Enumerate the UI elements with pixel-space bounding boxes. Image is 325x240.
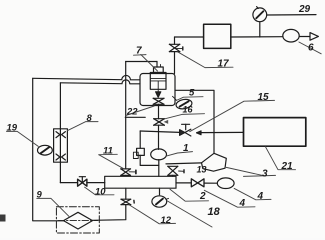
valve 10 (bowtie with T stem) — [78, 177, 87, 187]
wire: cap top to upper-left corner run — [156, 62, 158, 68]
leader 9 — [37, 198, 69, 216]
valve 17 (hourglass on vertical) — [169, 37, 182, 74]
leader 10 — [85, 187, 114, 195]
wire: unit7 right port to hexagon 3 — [175, 90, 214, 153]
leader 1 — [166, 152, 193, 157]
box 20 (square unit on top line) — [204, 24, 231, 48]
leader 7 — [134, 54, 147, 57]
wire: valve 10 to manifold — [87, 182, 105, 184]
leader 19 — [7, 131, 39, 146]
svg-text:21: 21 — [281, 161, 294, 172]
svg-text:4: 4 — [257, 191, 264, 202]
unit 8 (box with two check symbols) — [54, 129, 68, 162]
wire: stub under label 22 — [125, 116, 145, 118]
box 21 — [244, 118, 306, 147]
svg-text:9: 9 — [37, 190, 43, 201]
svg-text:6: 6 — [308, 42, 314, 53]
wire: main top line valve17 to box20 — [175, 36, 204, 38]
scan blob at left edge — [0, 215, 6, 222]
wire: line to valve 15 and box 21 — [140, 131, 179, 132]
leader 11 — [99, 153, 118, 155]
svg-text:10: 10 — [95, 186, 106, 197]
leader 15 — [190, 100, 275, 131]
svg-text:22: 22 — [126, 107, 138, 118]
wire: valve 12 down and left to filter 9 — [93, 205, 126, 221]
svg-text:8: 8 — [87, 113, 93, 124]
leader 8 — [68, 122, 99, 131]
wire: vertical feed to valve 11 — [125, 62, 127, 169]
cylinder inside unit 7 — [150, 64, 166, 97]
wire: left vertical down to filter 9 — [33, 78, 64, 221]
valve 22 (hourglass below cylinder) — [153, 98, 164, 104]
valve 16 (hourglass on pump riser) — [154, 104, 169, 125]
leader 2 — [170, 189, 209, 201]
wire: horizontal line B with hop — [60, 80, 140, 84]
wire: pump 1 to manifold — [158, 160, 160, 177]
leader 14 — [204, 190, 255, 207]
gauge 29 stem wire — [259, 22, 261, 37]
svg-text:17: 17 — [218, 59, 230, 70]
pump 1 (ellipse) — [151, 149, 167, 160]
svg-text:11: 11 — [103, 145, 113, 156]
svg-text:15: 15 — [258, 92, 270, 103]
valve 15 (throttle with arrow) — [180, 124, 201, 136]
circle 4 — [217, 178, 234, 189]
svg-text:7: 7 — [136, 46, 142, 57]
valve 12 (hourglass below manifold) — [121, 188, 134, 204]
svg-text:12: 12 — [161, 215, 172, 226]
svg-text:19: 19 — [7, 123, 18, 134]
svg-text:2: 2 — [199, 191, 206, 202]
wire: horizontal line A with hop — [33, 75, 140, 79]
leader 5 — [176, 97, 203, 101]
manifold 18 (long rectangle) — [105, 176, 176, 188]
leader 22 — [126, 106, 154, 115]
wire: second vertical through unit 8 down to valve 10 — [59, 83, 61, 129]
valve 11 (hourglass above manifold) — [121, 169, 136, 176]
leader 18 — [167, 201, 212, 227]
leader 12 — [129, 205, 176, 224]
svg-text:18: 18 — [208, 206, 221, 218]
leader 16 — [165, 114, 205, 119]
wire: riser to pump 1 — [158, 125, 160, 149]
leader 21 — [266, 147, 296, 170]
svg-text:4: 4 — [239, 198, 246, 209]
gauge 29 — [253, 8, 267, 22]
ellipse 6 (pump/blower on line) — [283, 29, 299, 42]
wire: box20 to ellipse 6 — [231, 36, 283, 38]
unit 7 outer box — [140, 74, 175, 106]
valve 13 (hourglass above manifold right) — [166, 163, 202, 176]
leader 4 — [234, 188, 271, 199]
hexagon 3 — [202, 153, 227, 171]
svg-text:3: 3 — [262, 169, 268, 180]
leader 17 — [178, 52, 233, 68]
leader 6 — [299, 42, 321, 54]
gauge 16/5 (on unit7 right side) — [173, 96, 193, 110]
pilot square component above manifold — [133, 131, 158, 165]
svg-text:29: 29 — [298, 4, 311, 15]
svg-text:13: 13 — [197, 164, 207, 174]
wire: ellipse 6 to drain triangle — [299, 36, 310, 38]
gauge 19 — [38, 145, 53, 155]
gauge 14 (below manifold) — [152, 188, 169, 207]
filter 9 (diamond in dash-dot box) — [56, 207, 99, 233]
drain triangle (open arrow) — [310, 33, 318, 41]
svg-text:1: 1 — [183, 143, 189, 154]
wire: gauge 29 to label 29 (leader line) — [267, 14, 316, 16]
valve 2 (bowtie right of manifold) — [176, 179, 217, 187]
leader 3 — [226, 167, 262, 175]
svg-text:16: 16 — [183, 104, 194, 114]
svg-text:5: 5 — [189, 88, 195, 99]
